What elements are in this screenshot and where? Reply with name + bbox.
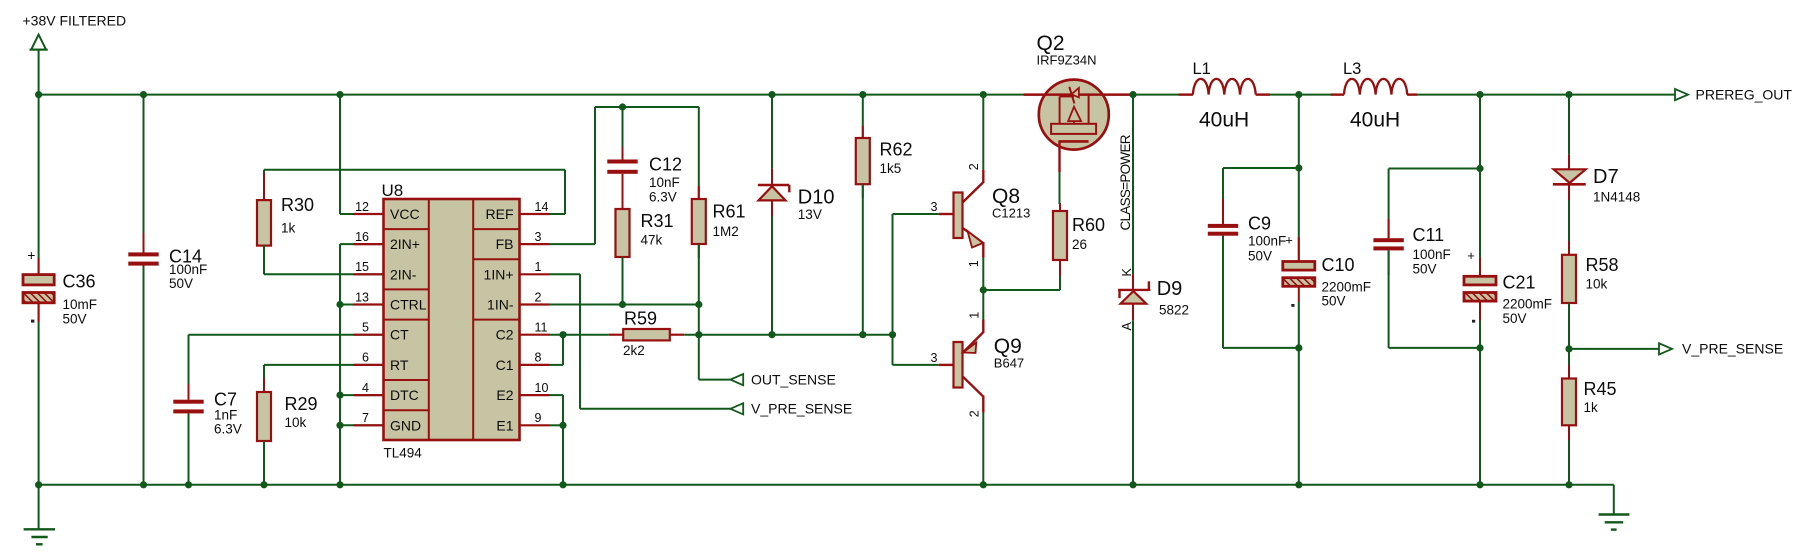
wire: R29 to ground rail (263, 441, 265, 485)
svg-text:3: 3 (535, 230, 542, 244)
resistor R61 pin bottom (698, 244, 700, 258)
svg-text:K: K (1120, 268, 1134, 277)
wire: R30 bottom to 2IN- pin 15 (264, 246, 384, 275)
svg-text:D9: D9 (1157, 278, 1183, 300)
resistor R58 pin bottom (1568, 303, 1570, 317)
svg-text:1nF: 1nF (214, 408, 237, 423)
terminal V_PRE_SENSE (left) (730, 401, 852, 417)
wire: C2 pin 11 net (550, 334, 609, 336)
node: rail junction D7 (1565, 91, 1572, 98)
resistor R62 pin bottom (862, 184, 864, 198)
node: R62 junction on base net (859, 331, 866, 338)
diode D9 pin top (K) (1132, 274, 1134, 290)
wire: 2IN+ pin 16 to ground net (340, 244, 384, 485)
capacitor C14 (128, 247, 207, 292)
diode D10 pin bottom (771, 200, 773, 216)
svg-text:C10: C10 (1322, 255, 1355, 275)
transistor Q2 (IRF9Z34N P-MOSFET) (1024, 32, 1131, 172)
svg-text:1k: 1k (1584, 400, 1599, 415)
svg-text:1IN+: 1IN+ (484, 266, 514, 282)
svg-text:2IN+: 2IN+ (390, 236, 420, 252)
node: base net junction (889, 331, 896, 338)
svg-text:DTC: DTC (390, 387, 419, 403)
wire: C21 top lead (1479, 169, 1481, 277)
resistor R45 pin top (1568, 365, 1570, 379)
wire: C36 to ground rail (38, 304, 40, 485)
svg-text:V_PRE_SENSE: V_PRE_SENSE (1682, 341, 1783, 357)
svg-text:E1: E1 (496, 417, 513, 433)
node: ground net bottom rail junction (336, 481, 343, 488)
svg-text:VCC: VCC (390, 206, 420, 222)
resistor R62 (856, 138, 913, 184)
wire: rail down to D7 (1568, 95, 1570, 155)
diode D7 pin bottom (1568, 184, 1570, 200)
svg-text:R61: R61 (713, 202, 746, 222)
node: C9/C10 bottom junction (1295, 344, 1302, 351)
svg-text:100nF: 100nF (1413, 247, 1451, 262)
node: C12 top junction (619, 103, 626, 110)
wire: CT pin 5 to C7 (189, 335, 384, 400)
capacitor C10 pin bottom (1298, 286, 1300, 302)
capacitor C11 (1373, 225, 1450, 277)
wire: Q9 collector to ground rail (982, 413, 984, 485)
svg-text:CT: CT (390, 327, 409, 343)
svg-text:1: 1 (968, 312, 982, 319)
svg-text:13V: 13V (798, 207, 822, 222)
wire: R59 to transistor bases (684, 334, 892, 336)
svg-text:+38V FILTERED: +38V FILTERED (23, 13, 127, 29)
wire: bottom ground rail (39, 484, 1614, 486)
svg-text:2200mF: 2200mF (1503, 297, 1553, 312)
wire: GND pin 7 stub (340, 424, 384, 426)
node: DTC junction (336, 392, 343, 399)
svg-text:R59: R59 (624, 309, 657, 329)
node: E1 junction (559, 422, 566, 429)
node: R45 bottom rail junction (1565, 481, 1572, 488)
resistor R31 pin bottom (622, 257, 624, 271)
wire: +38V rail down to C36 (38, 95, 40, 275)
ground (left) (24, 485, 55, 545)
svg-text:CTRL: CTRL (390, 297, 427, 313)
wire: rail down to C9/C10 node (1298, 95, 1300, 168)
wire: FB pin 3 to R61/C12 top (550, 107, 699, 244)
capacitor C10 (2200mF) (1283, 232, 1371, 308)
svg-text:U8: U8 (382, 181, 404, 200)
capacitor C14 pin top (143, 233, 145, 252)
wire: rail down to R62 (862, 95, 864, 138)
svg-text:50V: 50V (169, 276, 193, 291)
inductor L1 pin right (1256, 93, 1270, 95)
node: CTRL junction (336, 301, 343, 308)
node: R31 junction on 1IN- net (619, 301, 626, 308)
wire: Q8 base (893, 213, 939, 215)
node: C36 bottom rail junction (35, 481, 42, 488)
svg-text:PREREG_OUT: PREREG_OUT (1696, 86, 1793, 102)
node: emitter junction (980, 286, 987, 293)
svg-text:R58: R58 (1586, 255, 1619, 275)
svg-text:50V: 50V (1248, 249, 1272, 264)
wire: C9 top bracket (1223, 168, 1299, 224)
wire: 1IN+ pin 1 to V_PRE_SENSE (550, 274, 731, 409)
resistor R59 (623, 309, 670, 359)
svg-text:R62: R62 (880, 140, 913, 160)
capacitor C7 (173, 390, 241, 437)
ground (right) (1599, 485, 1630, 530)
wire: C11 bottom bracket (1389, 250, 1480, 348)
wire: rail to VCC pin 12 (340, 95, 384, 214)
power symbol +38V FILTERED (23, 13, 127, 95)
svg-text:C36: C36 (63, 272, 96, 292)
wire: Q8 collector to rail (982, 95, 984, 170)
inductor L3 pin left (1331, 93, 1344, 95)
wire: R31 bottom to 1IN- net (622, 257, 624, 305)
svg-text:1: 1 (967, 260, 981, 267)
resistor R45 pin bottom (1568, 425, 1570, 440)
svg-text:5: 5 (362, 321, 369, 335)
node: rail junction Q2/D9/L1 (1129, 91, 1136, 98)
resistor R59 pin right (670, 334, 685, 336)
node: R61/OUT_SENSE junction (695, 301, 702, 308)
inductor L1 (40uH) (1193, 60, 1256, 132)
node: rail junction C10 (1295, 91, 1302, 98)
capacitor C12 (607, 155, 682, 205)
svg-text:D10: D10 (798, 187, 835, 209)
svg-text:6.3V: 6.3V (214, 422, 242, 437)
wire: 1IN- pin 2 net (550, 304, 699, 306)
svg-text:+: + (1285, 232, 1293, 247)
transistor Q9 (B647 PNP) (931, 312, 1025, 418)
wire: rail down to D10 (771, 95, 773, 169)
node: Q9 collector rail junction (980, 481, 987, 488)
wire: R61 bottom to junction (698, 244, 700, 305)
svg-text:L1: L1 (1193, 60, 1211, 78)
resistor R29 pin bottom (263, 441, 265, 455)
pin label K (1120, 268, 1134, 277)
svg-text:2: 2 (968, 410, 982, 417)
resistor R30 pin top (263, 173, 265, 200)
svg-text:40uH: 40uH (1199, 109, 1249, 132)
wire: D9 to ground rail (1132, 321, 1134, 485)
svg-text:2k2: 2k2 (623, 343, 645, 358)
node: rail junction VCC feed (336, 91, 343, 98)
svg-text:OUT_SENSE: OUT_SENSE (751, 371, 836, 387)
svg-text:6.3V: 6.3V (649, 190, 677, 205)
wire: OUT_SENSE branch (699, 305, 731, 380)
svg-text:15: 15 (355, 260, 369, 274)
svg-text:+: + (27, 247, 35, 263)
node: E-net bottom rail junction (559, 481, 566, 488)
svg-text:7: 7 (362, 411, 369, 425)
resistor R61 pin top (698, 186, 700, 199)
resistor R58 pin top (1568, 241, 1570, 255)
svg-text:26: 26 (1072, 237, 1087, 252)
diode D9 (5822 schottky) (1118, 278, 1189, 317)
resistor R58 (1562, 255, 1619, 303)
transistor Q8 collector pin (982, 170, 984, 183)
wire: top power rail (39, 94, 1675, 96)
wire: DTC pin 4 stub (340, 394, 384, 396)
svg-text:1: 1 (535, 260, 542, 274)
wire: base tie vertical (892, 214, 894, 365)
wire: node to R45 (1568, 349, 1570, 379)
svg-text:13: 13 (355, 290, 369, 304)
node: C2/C1 junction (559, 331, 566, 338)
wire: E1 pin 9 stub (550, 424, 564, 426)
diode D7 (1N4148) (1553, 166, 1640, 205)
net label CLASS=POWER (1118, 134, 1133, 230)
wire: C14 to ground rail (143, 266, 145, 485)
svg-text:2IN-: 2IN- (390, 266, 417, 282)
capacitor C12 pin top (622, 147, 624, 160)
svg-text:CLASS=POWER: CLASS=POWER (1118, 134, 1133, 230)
capacitor C21 pin top (1479, 258, 1481, 277)
resistor R61 (692, 199, 746, 244)
svg-text:C21: C21 (1503, 273, 1536, 293)
svg-text:IRF9Z34N: IRF9Z34N (1037, 53, 1097, 68)
transistor Q8 (C1213 NPN) (931, 163, 1031, 267)
wire: RT pin 6 to R29 (264, 365, 384, 392)
svg-text:47k: 47k (641, 233, 663, 248)
capacitor C7 pin bottom (188, 413, 190, 430)
capacitor C12 pin bottom / R31 pin top (622, 174, 624, 209)
svg-text:11: 11 (535, 321, 548, 335)
svg-text:B647: B647 (994, 356, 1024, 371)
capacitor C9 pin bottom (1222, 236, 1224, 261)
wire: CTRL pin 13 stub (340, 304, 384, 306)
svg-text:R60: R60 (1072, 215, 1105, 235)
capacitor C11 pin bottom (1388, 250, 1390, 275)
svg-text:2: 2 (967, 163, 981, 170)
node: C14 bottom rail junction (140, 481, 147, 488)
capacitor C36 pin bottom (38, 304, 40, 323)
node: C11/C21 bottom junction (1476, 344, 1483, 351)
wire: C7 to ground rail (188, 413, 190, 484)
inductor L3 (40uH) (1343, 60, 1407, 132)
node: OUT_SENSE tap junction (695, 331, 702, 338)
svg-text:3: 3 (931, 200, 938, 214)
wire: emitter node to R60 (983, 276, 1060, 290)
svg-text:4: 4 (362, 381, 369, 395)
svg-text:14: 14 (535, 200, 549, 214)
svg-text:A: A (1120, 322, 1134, 331)
svg-text:C9: C9 (1248, 214, 1271, 234)
wire: R61 top lead (698, 107, 700, 199)
wire: rail down to C11/C21 node (1479, 95, 1481, 169)
capacitor C36 pin top (38, 258, 40, 275)
node: GND junction (336, 422, 343, 429)
transistor Q9 emitter pin (982, 320, 984, 334)
capacitor C14 pin bottom (143, 266, 145, 284)
capacitor C21 pin bottom (1479, 301, 1481, 320)
capacitor C11 pin top (1388, 219, 1390, 238)
node: C7 bottom rail junction (185, 481, 192, 488)
svg-text:50V: 50V (1503, 311, 1527, 326)
transistor Q9 collector pin (982, 396, 984, 413)
svg-text:10k: 10k (285, 415, 307, 430)
svg-text:1N4148: 1N4148 (1593, 190, 1640, 205)
resistor R31 (616, 209, 674, 257)
diode D7 pin top (1568, 154, 1570, 169)
wire: Q2 drain to R60 (1059, 172, 1061, 204)
node: rail junction D10 (768, 91, 775, 98)
svg-text:2: 2 (535, 290, 542, 304)
svg-text:100nF: 100nF (1248, 234, 1286, 249)
svg-text:TL494: TL494 (384, 446, 423, 461)
svg-text:1k5: 1k5 (880, 161, 902, 176)
wire: C10 to bottom junction (1298, 302, 1300, 348)
svg-text:D7: D7 (1593, 166, 1619, 188)
svg-text:10k: 10k (1586, 277, 1608, 292)
svg-text:C7: C7 (214, 390, 237, 410)
resistor R60 (1053, 211, 1105, 260)
diode D10 (13V zener) (758, 185, 835, 222)
svg-text:10: 10 (535, 381, 549, 395)
node: rail junction C14 (140, 91, 147, 98)
svg-text:10nF: 10nF (649, 175, 680, 190)
wire: C21 to bottom junction (1479, 321, 1481, 348)
wire: R45 to ground rail (1568, 440, 1570, 485)
capacitor C21 (2200mF) (1464, 248, 1552, 326)
terminal OUT_SENSE (730, 371, 835, 387)
wire: rail down to C14 (143, 95, 145, 253)
wire: C11 top bracket (1389, 169, 1480, 239)
inductor L1 pin left (1179, 93, 1193, 95)
resistor R45 (1562, 379, 1617, 426)
resistor R62 pin top (862, 126, 864, 138)
wire: R30 top lead (263, 170, 265, 200)
node: +38V junction top-left (35, 91, 42, 98)
transistor Q8 emitter pin (982, 242, 984, 258)
svg-text:L3: L3 (1343, 60, 1361, 78)
node: rail junction C21 (1476, 91, 1483, 98)
svg-text:3: 3 (931, 351, 938, 365)
svg-text:50V: 50V (63, 312, 87, 327)
resistor R59 pin left (609, 334, 623, 336)
resistor R60 pin top (1059, 203, 1061, 211)
capacitor C36 (23, 247, 97, 327)
node: C21 bottom rail junction (1476, 481, 1483, 488)
node: C9 top junction (1295, 164, 1302, 171)
svg-text:R30: R30 (281, 195, 314, 215)
node: D9 bottom rail junction (1129, 481, 1136, 488)
terminal PREREG_OUT (1675, 86, 1792, 102)
svg-text:R31: R31 (641, 211, 674, 231)
svg-text:C1213: C1213 (992, 206, 1030, 221)
wire: C2 to C1 link (550, 335, 564, 365)
inductor L3 pin right (1407, 93, 1417, 95)
wire: V_PRE_SENSE branch right (1569, 348, 1659, 350)
wire: R30 top to REF (264, 170, 565, 214)
wire: emitter node to Q9 (982, 290, 984, 320)
svg-text:R29: R29 (285, 394, 318, 414)
svg-text:16: 16 (355, 230, 369, 244)
svg-text:6: 6 (362, 351, 369, 365)
svg-text:C12: C12 (649, 155, 682, 175)
wire: rail down to D9 (1132, 95, 1134, 275)
diode D10 pin top (771, 169, 773, 185)
svg-text:100nF: 100nF (169, 262, 207, 277)
svg-text:REF: REF (486, 206, 514, 222)
wire: D7 to R58 (1568, 200, 1570, 255)
svg-text:C2: C2 (496, 327, 514, 343)
svg-text:50V: 50V (1322, 294, 1346, 309)
node: V_PRE_SENSE junction (1565, 345, 1572, 352)
svg-text:C11: C11 (1413, 225, 1445, 245)
wire: Q9 base (893, 364, 939, 366)
svg-text:50V: 50V (1413, 262, 1437, 277)
pin label A (1120, 322, 1134, 331)
node: D10 junction on base net (768, 331, 775, 338)
wire: C10 node to ground rail (1298, 348, 1300, 485)
wire: Q8 emitter to node (982, 258, 984, 291)
node: R29 bottom rail junction (260, 481, 267, 488)
svg-text:1M2: 1M2 (713, 224, 739, 239)
node: rail junction R62 (859, 91, 866, 98)
capacitor C9 (1208, 214, 1286, 264)
svg-text:2200mF: 2200mF (1322, 280, 1372, 295)
svg-text:C1: C1 (496, 357, 514, 373)
svg-text:9: 9 (535, 411, 542, 425)
capacitor C7 pin top (188, 384, 190, 400)
node: C10 bottom rail junction (1295, 481, 1302, 488)
node: rail junction Q8 collector (980, 91, 987, 98)
svg-text:10mF: 10mF (63, 297, 98, 312)
wire: C12 top lead (622, 107, 624, 160)
capacitor C10 pin top (1298, 237, 1300, 262)
resistor R30 (257, 195, 314, 246)
svg-text:40uH: 40uH (1350, 109, 1400, 132)
svg-text:GND: GND (390, 417, 421, 433)
wire: C21 node to ground rail (1479, 348, 1481, 485)
wire: R62 bottom to base net (862, 184, 864, 335)
diode D9 pin bottom (A) (1132, 304, 1134, 321)
resistor R29 pin top (263, 378, 265, 392)
wire: E2 pin 10 to E1/ground (550, 395, 564, 485)
resistor R30 pin bottom (263, 246, 265, 260)
wire: D10 to base net (771, 216, 773, 335)
svg-text:12: 12 (355, 200, 369, 214)
resistor R29 (257, 392, 318, 441)
IC U8 TL494 (354, 181, 550, 461)
svg-text:8: 8 (535, 351, 542, 365)
resistor R60 pin bottom (1059, 260, 1061, 276)
terminal V_PRE_SENSE (right) (1659, 341, 1783, 357)
svg-text:5822: 5822 (1159, 302, 1189, 317)
wire: C10 top lead (1298, 168, 1300, 262)
svg-text:RT: RT (390, 357, 409, 373)
svg-text:+: + (1467, 248, 1475, 263)
node: C11 top junction (1476, 165, 1483, 172)
svg-text:E2: E2 (496, 387, 513, 403)
wire: C9 bottom bracket (1223, 236, 1299, 348)
svg-text:R45: R45 (1584, 379, 1617, 399)
svg-text:1IN-: 1IN- (487, 297, 514, 313)
svg-text:1k: 1k (281, 221, 296, 236)
wire: R58 to V_PRE_SENSE node (1568, 303, 1570, 349)
svg-text:V_PRE_SENSE: V_PRE_SENSE (751, 401, 852, 417)
capacitor C9 pin top (1222, 199, 1224, 224)
svg-text:FB: FB (496, 236, 514, 252)
